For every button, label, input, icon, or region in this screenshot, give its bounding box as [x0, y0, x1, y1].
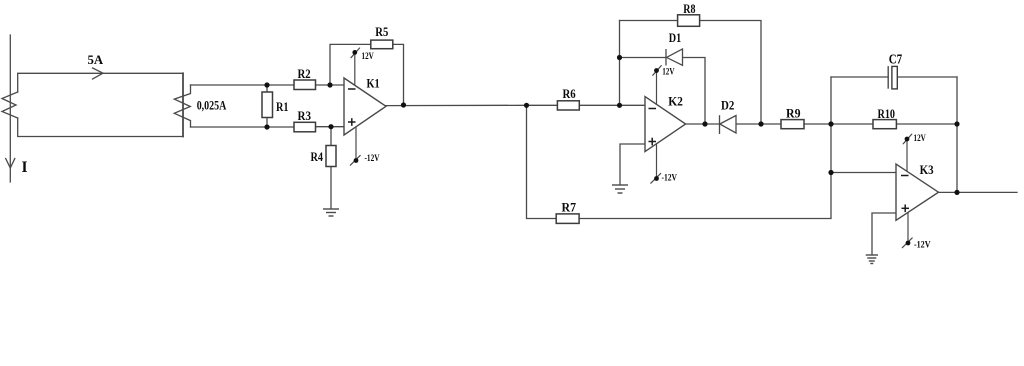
svg-text:R1: R1 [276, 100, 289, 114]
svg-text:12V: 12V [662, 68, 674, 78]
svg-text:R7: R7 [562, 201, 577, 215]
svg-text:D2: D2 [721, 98, 734, 112]
svg-text:12V: 12V [914, 134, 926, 144]
svg-text:12V: 12V [362, 52, 374, 62]
svg-text:R9: R9 [786, 107, 801, 121]
svg-text:-12V: -12V [914, 241, 931, 251]
svg-text:5A: 5A [88, 53, 104, 67]
svg-text:I: I [22, 159, 28, 176]
svg-text:R5: R5 [375, 25, 388, 39]
svg-text:-12V: -12V [365, 154, 380, 164]
svg-text:R8: R8 [683, 2, 695, 16]
svg-text:K2: K2 [668, 94, 683, 109]
svg-text:K1: K1 [367, 76, 380, 91]
svg-text:D1: D1 [669, 31, 681, 45]
svg-text:-12V: -12V [662, 174, 678, 184]
svg-text:R4: R4 [311, 150, 324, 164]
svg-text:C7: C7 [889, 51, 903, 66]
svg-text:R2: R2 [298, 67, 311, 81]
svg-text:K3: K3 [920, 162, 934, 177]
svg-text:R6: R6 [563, 87, 576, 101]
svg-text:R10: R10 [878, 107, 896, 121]
svg-text:R3: R3 [298, 109, 312, 123]
svg-text:0,025A: 0,025A [197, 99, 227, 113]
